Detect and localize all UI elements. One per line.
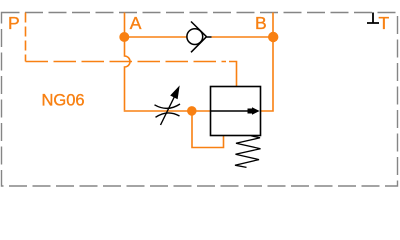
node: junction at B: [268, 32, 278, 42]
wire: corner A-line to throttle inlet: [125, 109, 193, 112]
wire: drain loop from throttle junction to relief valve bottom port: [192, 111, 224, 148]
relief valve U1 flow arrow shaft: [211, 110, 251, 112]
svg-text:P: P: [8, 13, 20, 33]
relief valve U1 flow arrowhead: [248, 107, 260, 115]
throttle valve adjustment arrow shaft: [161, 97, 175, 126]
check valve V1 seat: [191, 22, 212, 53]
wire: port B vertical down to relief valve outlet: [261, 13, 274, 112]
wire: throttle junction to relief valve inlet: [192, 110, 211, 112]
throttle valve (adjustable restrictor) arcs: [155, 104, 181, 117]
svg-text:A: A: [130, 13, 142, 33]
svg-text:T: T: [379, 13, 390, 33]
relief valve U1 body: [211, 87, 261, 136]
manifold block outline (dashed gray): [2, 13, 398, 187]
wire: check valve to B junction: [212, 36, 274, 38]
node: junction at A: [119, 32, 129, 42]
svg-text:NG06: NG06: [42, 91, 85, 109]
plugged port T symbol: [367, 13, 379, 24]
check valve V1 ball: [187, 29, 203, 45]
wire: port A vertical with hop over pilot line, down to throttle level: [125, 13, 131, 111]
wire: main line A to check valve: [125, 36, 188, 38]
wire: pilot line horizontal dashed: [26, 61, 227, 63]
svg-text:B: B: [255, 13, 267, 33]
node: junction at throttle outlet: [187, 106, 197, 116]
relief valve U1 spring: [235, 136, 261, 168]
wire: pilot line solid segment into relief valve top port: [229, 62, 237, 87]
wire: pilot line from P, vertical dashed: [25, 13, 27, 62]
throttle valve adjustment arrowhead: [170, 85, 180, 99]
